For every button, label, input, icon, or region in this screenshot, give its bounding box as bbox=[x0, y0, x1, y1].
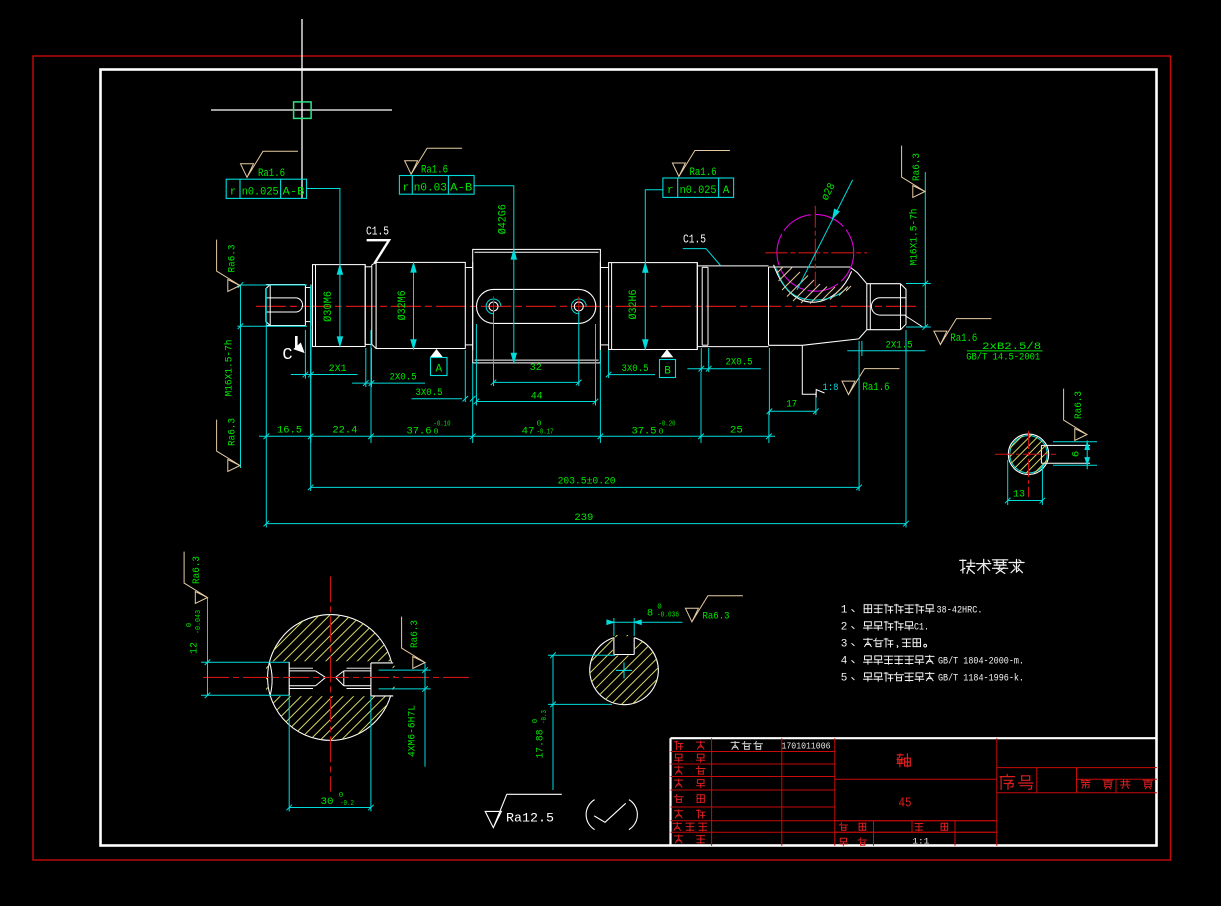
svg-text:4: 4 bbox=[841, 655, 848, 667]
svg-text:25: 25 bbox=[730, 425, 743, 437]
svg-text:1: 1 bbox=[841, 604, 848, 616]
svg-text:A: A bbox=[723, 185, 730, 197]
svg-text:Ra1.6: Ra1.6 bbox=[950, 333, 977, 345]
section C-C right keyway slot bbox=[371, 662, 393, 664]
svg-text:Ra1.6: Ra1.6 bbox=[863, 382, 890, 394]
svg-text:2: 2 bbox=[841, 621, 848, 633]
GD&T frame runout 0.03 A-B bbox=[399, 176, 474, 195]
dimension row line A bbox=[259, 435, 775, 437]
svg-text:1701011006: 1701011006 bbox=[782, 740, 831, 751]
surface finish Ra6.3 lower left bbox=[217, 420, 240, 472]
hole segment top edge bbox=[769, 266, 851, 268]
dimension line 239 bbox=[266, 523, 906, 525]
svg-text:203.5±0.20: 203.5±0.20 bbox=[558, 475, 616, 487]
svg-text:Ra1.6: Ra1.6 bbox=[258, 168, 285, 180]
surface finish Ra1.6 above frame 3 bbox=[672, 151, 730, 177]
surface finish Ra6.3 at flat bbox=[1064, 389, 1087, 441]
main shaft centerline bbox=[256, 305, 920, 307]
GD&T frame runout 0.025 A-B bbox=[226, 179, 306, 198]
svg-text:239: 239 bbox=[574, 512, 593, 524]
part name 轴 bbox=[897, 754, 903, 756]
svg-text:Ra1.6: Ra1.6 bbox=[421, 165, 448, 177]
svg-text:Ra6.3: Ra6.3 bbox=[911, 153, 923, 181]
svg-text:-0.2: -0.2 bbox=[340, 800, 354, 808]
datum target A bbox=[431, 350, 442, 357]
svg-text:-0.036: -0.036 bbox=[657, 612, 679, 620]
svg-text:C1.: C1. bbox=[914, 621, 929, 633]
keyway left center circle bbox=[489, 302, 498, 311]
cursor pickbox square bbox=[294, 102, 312, 119]
svg-text:n0.025: n0.025 bbox=[680, 185, 717, 197]
svg-text:C1.5: C1.5 bbox=[683, 233, 706, 246]
page labels bbox=[1082, 780, 1084, 781]
section C-C hatch lines bbox=[133, 575, 528, 781]
svg-text:2X0.5: 2X0.5 bbox=[726, 357, 753, 369]
svg-text:22.4: 22.4 bbox=[332, 425, 357, 437]
dimension 239 extension lines bbox=[265, 443, 267, 528]
small section keyway notch bbox=[613, 638, 615, 655]
keyway right cyan arc marker bbox=[571, 299, 586, 314]
groove right of middle block 3X0.5 bbox=[600, 267, 608, 269]
svg-text:8: 8 bbox=[647, 608, 653, 620]
dimension 13 section width bbox=[1007, 460, 1009, 505]
breakout hatch lines bbox=[777, 267, 784, 274]
svg-text:Ø32M6: Ø32M6 bbox=[397, 290, 409, 320]
surface finish Ra1.6 at right thread bbox=[934, 319, 992, 345]
dimension 3X0.5 groove left of block bbox=[464, 350, 466, 402]
svg-text:0: 0 bbox=[532, 718, 540, 723]
svg-text:0: 0 bbox=[434, 428, 440, 436]
section C-C red centerlines bbox=[203, 676, 471, 678]
surface finish Ra6.3 right of section C-C bbox=[402, 617, 425, 669]
svg-text:37.5: 37.5 bbox=[632, 425, 657, 437]
svg-text:M16X1.5-7h: M16X1.5-7h bbox=[909, 209, 921, 266]
svg-text:Ra12.5: Ra12.5 bbox=[506, 812, 554, 826]
svg-text:B: B bbox=[664, 366, 671, 378]
surface finish Ra1.6 above frame 1 bbox=[241, 151, 299, 177]
dimension O42G6 leader and dim line bbox=[474, 186, 514, 250]
svg-text:5: 5 bbox=[841, 672, 848, 684]
title block column lines bbox=[711, 738, 713, 846]
designer name bbox=[731, 741, 739, 743]
svg-text:45: 45 bbox=[899, 797, 912, 812]
svg-text:A-B: A-B bbox=[283, 187, 305, 199]
keyway right red center cross bbox=[578, 297, 580, 317]
svg-text:Ra6.3: Ra6.3 bbox=[227, 418, 239, 446]
crosshair cursor vertical line bbox=[301, 19, 303, 198]
svg-text:-0.043: -0.043 bbox=[195, 610, 203, 634]
leader o28 for cross hole bbox=[797, 180, 853, 290]
keyway slot outline in middle block bbox=[477, 289, 596, 323]
svg-text:17.88: 17.88 bbox=[535, 730, 547, 759]
dimension 12 keyway width bbox=[207, 598, 209, 695]
svg-text:0: 0 bbox=[659, 428, 665, 436]
svg-text:Ø42G6: Ø42G6 bbox=[498, 204, 510, 234]
right removed section white circle bbox=[1008, 434, 1048, 474]
shaft segment O30M6 outline bbox=[313, 265, 366, 347]
svg-text:32: 32 bbox=[530, 362, 542, 374]
svg-text:37.6: 37.6 bbox=[407, 425, 432, 437]
svg-text:16.5: 16.5 bbox=[277, 425, 302, 437]
taper 1:8 leader and flag bbox=[802, 345, 816, 394]
dimension O32M6 dim line bbox=[413, 262, 415, 349]
dimension 8 keyway width bbox=[613, 618, 615, 636]
dimension 6 flat width bbox=[1053, 441, 1097, 443]
svg-text:30: 30 bbox=[321, 796, 334, 808]
svg-text:A-B: A-B bbox=[450, 183, 472, 195]
svg-text:2X1: 2X1 bbox=[329, 363, 347, 375]
M16 left dimension line bbox=[240, 285, 242, 326]
svg-text:47: 47 bbox=[522, 425, 535, 437]
surface finish Ra6.3 right top bbox=[902, 146, 925, 198]
svg-text:Ra6.3: Ra6.3 bbox=[227, 245, 239, 273]
svg-text:1:8: 1:8 bbox=[823, 382, 839, 394]
svg-text:Ra6.3: Ra6.3 bbox=[409, 620, 421, 648]
svg-text:44: 44 bbox=[531, 390, 543, 402]
svg-text:0: 0 bbox=[537, 420, 543, 428]
svg-text:38-42HRC.: 38-42HRC. bbox=[937, 604, 983, 616]
weight quantity scale labels bbox=[840, 823, 843, 825]
small section circle outline bbox=[590, 638, 659, 705]
svg-text:r: r bbox=[667, 185, 674, 197]
breakout inner cyan arc bbox=[777, 269, 848, 301]
svg-text:Ø32H6: Ø32H6 bbox=[628, 290, 640, 320]
svg-text:A: A bbox=[435, 364, 442, 376]
surface finish Ra6.3 above section C-C bbox=[184, 552, 207, 604]
surface finish Ra1.6 above frame 2 bbox=[405, 148, 463, 174]
shaft segment O32H6 right outline bbox=[609, 263, 698, 350]
svg-text:6: 6 bbox=[1071, 451, 1083, 457]
dimension O32H6 leader and dim line bbox=[645, 190, 663, 263]
svg-text:-0.3: -0.3 bbox=[541, 710, 549, 724]
title block middle cell lines bbox=[835, 778, 997, 780]
groove left of middle block 3X0.5 bbox=[465, 267, 472, 269]
left thread center hole profile bbox=[266, 298, 303, 312]
svg-text:-0.20: -0.20 bbox=[659, 420, 676, 428]
shaft segment O32M6 outline bbox=[376, 262, 465, 348]
left thread end outline bbox=[266, 285, 270, 326]
middle block O42G6 outline bbox=[473, 249, 601, 363]
other-surfaces checkmark in parentheses bbox=[586, 800, 594, 830]
svg-text:13: 13 bbox=[1013, 489, 1025, 501]
small section center mark bbox=[616, 669, 632, 671]
magenta highlight circle o28 hole bbox=[777, 214, 854, 291]
svg-text:12: 12 bbox=[189, 642, 201, 654]
svg-text:3: 3 bbox=[841, 638, 848, 650]
svg-text:C1.5: C1.5 bbox=[366, 226, 389, 239]
svg-text:3X0.5: 3X0.5 bbox=[622, 363, 649, 375]
dimension 2X1.5 chamfer right bbox=[847, 350, 925, 352]
dimension 203.5 extension lines bbox=[310, 288, 312, 491]
right removed section cyan circle bbox=[1010, 436, 1047, 473]
hole segment bottom edge and 1:8 taper bbox=[769, 344, 803, 346]
section C-C left keyway slot bbox=[201, 661, 289, 663]
dimension 2X0.5 groove right bbox=[700, 348, 702, 372]
title block outer white lines bbox=[669, 738, 671, 846]
svg-text:4XM6-6H7L: 4XM6-6H7L bbox=[407, 705, 419, 757]
svg-text:1:1: 1:1 bbox=[912, 837, 929, 847]
svg-text:2X1.5: 2X1.5 bbox=[886, 340, 913, 352]
row-A extension lines bbox=[265, 288, 267, 443]
groove 2X0.5 right of O32H6 bbox=[696, 263, 698, 350]
right thread center hole profile bbox=[871, 298, 906, 315]
dimension keyway 32 center distance bbox=[493, 311, 495, 386]
svg-text:GB/T 14.5-2001: GB/T 14.5-2001 bbox=[966, 351, 1040, 363]
svg-text:2X0.5: 2X0.5 bbox=[390, 372, 417, 384]
svg-text:C: C bbox=[282, 346, 292, 365]
svg-text:n0.025: n0.025 bbox=[242, 187, 279, 199]
keyway left red center cross bbox=[493, 297, 495, 317]
chamfer leader line at right thread bbox=[905, 316, 924, 328]
M16 left extension lines bbox=[237, 284, 307, 286]
svg-text:0: 0 bbox=[339, 792, 344, 800]
title block right section lines bbox=[997, 767, 1157, 769]
svg-text:Ra1.6: Ra1.6 bbox=[690, 167, 717, 179]
datum target B bbox=[662, 350, 673, 357]
dimension line 203.5 bbox=[311, 486, 859, 488]
dimension 2X1 thread undercut bbox=[304, 330, 306, 379]
svg-text:r: r bbox=[402, 183, 409, 195]
hole horizontal red centerline bbox=[765, 252, 867, 254]
section C-C circle outline bbox=[268, 615, 392, 741]
general surface finish Ra12.5 bbox=[485, 794, 562, 827]
svg-text:3X0.5: 3X0.5 bbox=[416, 387, 443, 399]
dimension 30 slot bottoms bbox=[288, 695, 290, 811]
dimension O30M6 leader and dim line bbox=[307, 189, 340, 265]
section C-C left M6 tapped hole bbox=[289, 670, 315, 672]
svg-text:r: r bbox=[230, 187, 237, 199]
dimension 17.88 keyway depth bbox=[548, 654, 615, 656]
taper-to-thread transition bbox=[850, 267, 867, 284]
dimension 2X0.5 groove left bbox=[365, 348, 367, 387]
dimension keyway 44 length bbox=[475, 324, 477, 406]
M16 right extension lines bbox=[906, 283, 931, 285]
keyway left cyan arc marker bbox=[486, 299, 501, 314]
svg-text:GB/T 1184-1996-k.: GB/T 1184-1996-k. bbox=[938, 672, 1024, 684]
technical requirements heading bbox=[962, 560, 964, 573]
groove at O30/O32 step bbox=[365, 266, 372, 268]
M16 right dimension line bbox=[924, 172, 926, 327]
title block row labels bbox=[675, 741, 677, 750]
dimension 3X0.5 groove right of block bbox=[599, 350, 601, 386]
svg-text:Ra6.3: Ra6.3 bbox=[703, 610, 730, 622]
svg-text:17: 17 bbox=[786, 399, 797, 411]
serial number label bbox=[1006, 775, 1008, 777]
crosshair cursor horizontal line bbox=[211, 109, 392, 111]
dimension 4XM6-6H7L bbox=[379, 669, 431, 671]
thread undercut groove 2X1 bbox=[305, 287, 311, 289]
keyway right center circle bbox=[574, 302, 583, 311]
svg-text:Ø30M6: Ø30M6 bbox=[323, 291, 335, 322]
breakout section boundary white spline bbox=[774, 265, 852, 302]
GD&T frame runout 0.025 A bbox=[663, 178, 734, 197]
svg-text:n0.03: n0.03 bbox=[414, 183, 447, 195]
svg-text:GB/T 1804-2000-m.: GB/T 1804-2000-m. bbox=[938, 655, 1024, 667]
surface finish Ra6.3 at small section bbox=[685, 596, 743, 622]
section C-C right M6 tapped hole bbox=[344, 670, 371, 672]
shoulder at hole segment bbox=[768, 267, 770, 345]
surface finish Ra1.6 at taper bbox=[842, 369, 900, 395]
inner white sheet border bbox=[101, 70, 1157, 846]
section arrow at C bbox=[295, 336, 298, 349]
svg-text:Ra6.3: Ra6.3 bbox=[1073, 391, 1085, 419]
svg-text:Ra6.3: Ra6.3 bbox=[191, 556, 203, 584]
dimension 17 hole position bbox=[768, 348, 770, 415]
right thread M16 outline bbox=[866, 284, 868, 330]
svg-text:0: 0 bbox=[186, 622, 194, 627]
hole vertical red centerline bbox=[814, 206, 816, 287]
svg-text:-0.17: -0.17 bbox=[537, 428, 554, 436]
right removed section red centerlines bbox=[995, 453, 1056, 455]
shaft segment O35 outline bbox=[697, 265, 768, 267]
svg-text:-0.10: -0.10 bbox=[434, 420, 451, 428]
right removed section flat band bbox=[1041, 444, 1090, 446]
svg-text:0: 0 bbox=[657, 604, 662, 612]
title block row lines bbox=[671, 751, 835, 753]
surface finish Ra6.3 upper left bbox=[217, 240, 240, 292]
svg-text:M16X1.5-7h: M16X1.5-7h bbox=[224, 340, 236, 397]
